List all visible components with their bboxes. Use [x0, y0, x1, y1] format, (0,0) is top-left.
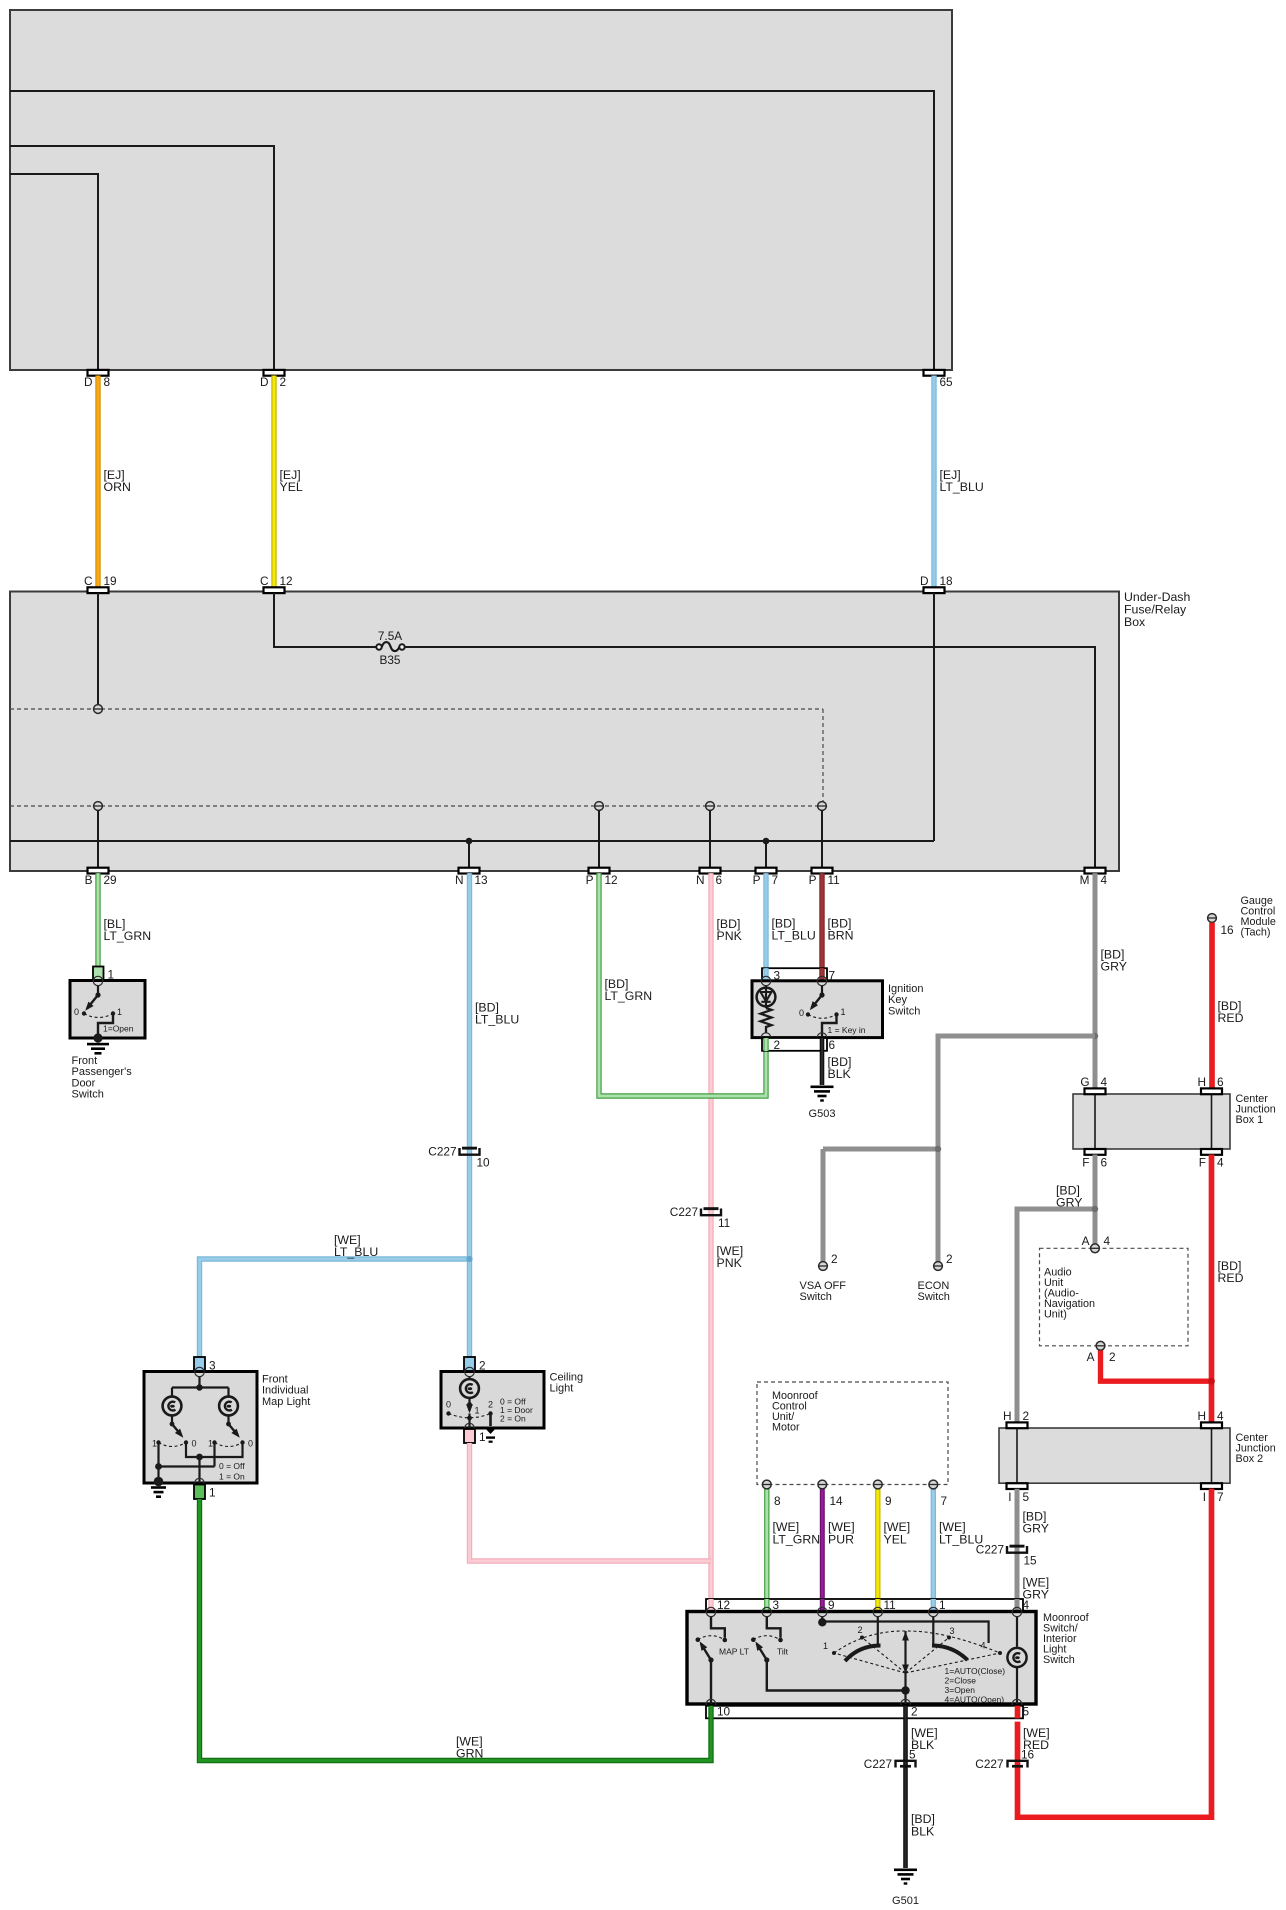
wire [WE] RED I7 to moonroof switch pin 5 [1018, 1489, 1212, 1818]
svg-text:12: 12 [280, 574, 293, 588]
gray junction dot [1092, 1033, 1098, 1039]
svg-text:H: H [1197, 1409, 1206, 1423]
ignition pin 2 circle [761, 1033, 770, 1042]
connector H6 [1197, 1075, 1224, 1094]
map light lamp left [163, 1397, 182, 1416]
svg-text:GRN: GRN [456, 1747, 483, 1761]
connector P11 [809, 868, 840, 887]
svg-text:1: 1 [823, 1641, 828, 1651]
ceiling light legend [500, 1397, 533, 1424]
svg-text:4: 4 [1101, 873, 1108, 887]
ceiling light lamp [460, 1376, 479, 1398]
fuse B35 7.5A [376, 629, 404, 667]
moonroof switch pin circles bottom [706, 1699, 1021, 1708]
door switch dashed travel arc [84, 1014, 113, 1018]
svg-text:F: F [1082, 1156, 1089, 1170]
gray junction dot 3 [1092, 1206, 1098, 1212]
map light pin 1 circle [195, 1478, 204, 1487]
gauge control module label [1241, 895, 1276, 939]
svg-text:H: H [1003, 1409, 1012, 1423]
map light 0-contacts bus [186, 1443, 243, 1484]
svg-text:N: N [455, 873, 464, 887]
svg-text:Switch: Switch [918, 1291, 950, 1303]
ceiling light pin 2 circle [465, 1367, 474, 1376]
wire: C19 to relay pin [97, 593, 99, 705]
svg-text:2: 2 [488, 1400, 493, 1410]
svg-text:16: 16 [1221, 923, 1235, 937]
moonroof switch top pin labels [717, 1598, 1030, 1612]
svg-text:Box: Box [1124, 615, 1146, 629]
moonroof rotary wiper [902, 1631, 909, 1691]
svg-text:Front: Front [72, 1055, 98, 1067]
svg-text:C: C [260, 574, 269, 588]
ignition pin labels 2 6 [774, 1038, 836, 1052]
moonroof rotary pin 1 stub [932, 1616, 934, 1645]
moonroof switch bottom pin strip [706, 1706, 1023, 1719]
svg-text:ORN: ORN [104, 480, 131, 494]
svg-text:Box 1: Box 1 [1236, 1114, 1264, 1126]
red junction dot [1208, 1378, 1215, 1385]
svg-text:4: 4 [1101, 1075, 1108, 1089]
connector B29 [85, 868, 117, 887]
wire [WE] YEL motor pin 9 to switch pin 11 [878, 1489, 910, 1608]
wire PNK ceiling light to moonroof switch [470, 1443, 712, 1561]
svg-text:1 = Key in: 1 = Key in [828, 1025, 866, 1035]
audio unit pin A4 [1082, 1234, 1111, 1253]
svg-text:5: 5 [1023, 1490, 1030, 1504]
svg-text:6: 6 [1217, 1075, 1224, 1089]
door switch contact 0 [74, 1007, 86, 1017]
ceiling light label [550, 1371, 584, 1394]
svg-text:LT_BLU: LT_BLU [772, 929, 816, 943]
svg-text:MAP LT: MAP LT [719, 1647, 749, 1657]
connector C227 pin 11 [670, 1205, 730, 1230]
relay pin circle P12 [595, 802, 604, 868]
svg-text:7: 7 [1217, 1490, 1224, 1504]
svg-text:5: 5 [909, 1748, 916, 1762]
svg-text:Passenger's: Passenger's [72, 1066, 133, 1078]
moonroof rotary feed [818, 1616, 989, 1643]
moonroof motor pin 7 [929, 1480, 947, 1508]
svg-text:11: 11 [718, 1216, 730, 1230]
wire [BD]/[WE] PNK N6 to moonroof switch [711, 873, 743, 1608]
CJB1 internal links [1095, 1094, 1212, 1149]
ceiling light output [467, 1414, 472, 1429]
ignition pin 7 circle [817, 976, 826, 985]
svg-text:A: A [1082, 1234, 1090, 1248]
wire [EJ] ORN D8 to C19 [98, 376, 131, 588]
svg-text:14: 14 [830, 1494, 844, 1508]
connector C227 pin 16 [975, 1748, 1034, 1771]
svg-text:4: 4 [1217, 1156, 1224, 1170]
svg-text:BLK: BLK [828, 1067, 852, 1081]
svg-text:9: 9 [828, 1598, 835, 1612]
svg-text:1: 1 [479, 1430, 486, 1444]
wire [BL] LT_GRN B29 to door switch [98, 873, 151, 966]
ignition pin 2 wire stub [763, 1038, 768, 1051]
svg-text:Ignition: Ignition [888, 983, 923, 995]
map light legend [219, 1461, 245, 1482]
map light pin 3 circle [195, 1367, 204, 1376]
svg-text:2: 2 [1109, 1350, 1116, 1364]
moonroof motor pin 8 [762, 1480, 781, 1508]
svg-text:1: 1 [939, 1598, 946, 1612]
svg-text:15: 15 [1024, 1554, 1038, 1568]
svg-text:G503: G503 [809, 1108, 836, 1120]
svg-text:P: P [753, 873, 761, 887]
wire [BD] RED gauge to H6 [1212, 923, 1244, 1089]
wire: dot to N13 [468, 841, 470, 868]
svg-text:LT_BLU: LT_BLU [940, 480, 984, 494]
svg-text:1: 1 [117, 1007, 122, 1017]
svg-text:1: 1 [475, 1406, 480, 1416]
svg-text:Map Light: Map Light [262, 1396, 310, 1408]
svg-text:C227: C227 [975, 1757, 1003, 1771]
ignition pin 3 wire stub [763, 968, 768, 981]
svg-text:1: 1 [209, 1486, 216, 1500]
connector H2 [1003, 1409, 1029, 1428]
center junction box 2 [999, 1428, 1276, 1483]
gray junction dot 2 [935, 1146, 941, 1152]
connector C227 pin 10 [428, 1145, 490, 1170]
moonroof motor pin 14 [818, 1480, 843, 1508]
MAP LT switch [696, 1616, 749, 1704]
connector C227 pin 15 [976, 1543, 1037, 1568]
svg-text:5: 5 [1023, 1705, 1030, 1719]
wire: dot to P7 [765, 841, 767, 868]
svg-text:BLK: BLK [911, 1825, 935, 1839]
svg-text:4: 4 [1217, 1409, 1224, 1423]
svg-text:9: 9 [885, 1494, 892, 1508]
interior light lamp [1007, 1616, 1026, 1704]
ground G503 [809, 1086, 836, 1121]
ceiling light pin 1 circle [465, 1423, 474, 1432]
svg-text:Tilt: Tilt [777, 1647, 789, 1657]
connector H4 [1197, 1409, 1224, 1428]
svg-text:Front: Front [262, 1373, 288, 1385]
map light ground [151, 1477, 166, 1498]
svg-text:4=AUTO(Open): 4=AUTO(Open) [945, 1694, 1005, 1704]
svg-text:LT_GRN: LT_GRN [104, 929, 152, 943]
svg-text:Box 2: Box 2 [1236, 1453, 1264, 1465]
moonroof switch bottom pin labels [717, 1705, 1030, 1719]
svg-text:Key: Key [888, 994, 907, 1006]
svg-text:LT_BLU: LT_BLU [475, 1013, 519, 1027]
svg-text:PUR: PUR [828, 1533, 854, 1547]
svg-text:Switch: Switch [888, 1005, 920, 1017]
moonroof motor pin 9 [873, 1480, 891, 1508]
wire: D18 into box [933, 593, 935, 841]
center junction box 1 [1073, 1093, 1276, 1149]
door switch output elbow [98, 1014, 134, 1039]
svg-text:D: D [84, 375, 93, 389]
map light pin 3 [194, 1357, 216, 1373]
connector N6 [696, 868, 723, 887]
svg-text:Light: Light [550, 1383, 574, 1395]
svg-text:0: 0 [192, 1439, 197, 1449]
wire [BD] BLK ignition pin 6 to G503 [822, 1051, 852, 1085]
svg-text:4: 4 [1104, 1234, 1111, 1248]
ignition pin 6 circle [817, 1033, 826, 1042]
junction dot N13 [466, 838, 473, 845]
svg-text:1=Open: 1=Open [103, 1024, 134, 1034]
svg-text:D: D [260, 375, 269, 389]
power distribution box (top) [10, 10, 952, 370]
connector D2 [260, 370, 286, 389]
door switch common stub [95, 985, 100, 997]
ignition pin 7 wire stub [819, 968, 824, 981]
audio unit dashed box [1040, 1248, 1189, 1346]
ceiling light pin 1 [464, 1429, 486, 1444]
svg-text:2=Close: 2=Close [945, 1675, 977, 1685]
connector G4 [1080, 1075, 1107, 1094]
svg-text:8: 8 [104, 375, 111, 389]
relay pin circle B29 [94, 802, 103, 868]
wire: bus to connector D8 [10, 174, 98, 370]
front passenger door switch box [70, 981, 145, 1039]
wire: internal bus to D18 [10, 840, 934, 842]
ignition resistor [761, 1008, 772, 1034]
wire RED A2 to junction [1101, 1351, 1212, 1382]
svg-text:0 = Off: 0 = Off [219, 1461, 245, 1471]
svg-text:11: 11 [828, 873, 840, 887]
connector C12 [260, 574, 293, 593]
moonroof rotary contact labels [823, 1625, 986, 1651]
relay pin circle P11 [818, 802, 827, 868]
wire: bus to connector D2 [10, 146, 274, 370]
connector F4 [1199, 1149, 1224, 1170]
svg-text:3: 3 [773, 1598, 780, 1612]
ceiling light box [441, 1372, 544, 1429]
svg-text:Door: Door [72, 1077, 96, 1089]
wire [WE] LT_GRN motor pin 8 to switch pin 3 [767, 1489, 820, 1608]
map light 1-contacts bus [155, 1443, 214, 1482]
svg-text:B: B [85, 873, 93, 887]
junction dot blue [466, 1256, 472, 1262]
map light pin 1 [194, 1485, 216, 1500]
junction dot P7 [763, 838, 770, 845]
wire [BD] LT_BLU P7 to ignition pin 3 [766, 873, 816, 981]
svg-text:VSA OFF: VSA OFF [800, 1280, 847, 1292]
svg-text:13: 13 [475, 873, 489, 887]
svg-text:YEL: YEL [280, 480, 303, 494]
svg-text:Individual: Individual [262, 1385, 308, 1397]
wire GRY I5 to moonroof switch pin 4 [1017, 1489, 1049, 1608]
svg-text:C227: C227 [428, 1145, 456, 1159]
svg-text:2: 2 [774, 1038, 781, 1052]
svg-text:C: C [84, 574, 93, 588]
svg-text:12: 12 [717, 1598, 730, 1612]
ECON switch pin 2 [934, 1252, 953, 1270]
svg-text:0: 0 [248, 1439, 253, 1449]
svg-text:Motor: Motor [772, 1422, 800, 1434]
ECON switch label [918, 1280, 950, 1303]
svg-text:RED: RED [1218, 1271, 1244, 1285]
relay pin circle C19 side [94, 705, 103, 714]
svg-text:11: 11 [884, 1598, 896, 1612]
svg-text:LT_BLU: LT_BLU [939, 1533, 983, 1547]
wire [EJ] YEL D2 to C12 [274, 376, 303, 588]
svg-text:Switch: Switch [800, 1291, 832, 1303]
moonroof rotary bridge contacts [845, 1646, 968, 1662]
svg-text:G501: G501 [892, 1895, 919, 1907]
connector C227 pin 5 [864, 1748, 916, 1771]
map light feed tee [172, 1376, 229, 1396]
under-dash fuse/relay box [10, 590, 1190, 871]
svg-text:1: 1 [841, 1007, 846, 1017]
svg-text:GRY: GRY [1101, 960, 1127, 974]
ignition contact 1 [834, 1007, 845, 1017]
ceiling light pin 2 [464, 1357, 486, 1373]
svg-text:RED: RED [1218, 1011, 1244, 1025]
ignition contact 0 [799, 1008, 810, 1018]
connector P12 [586, 868, 618, 887]
svg-text:19: 19 [104, 574, 117, 588]
svg-text:B35: B35 [380, 653, 401, 667]
door switch pin circle [93, 976, 102, 985]
svg-text:ECON: ECON [918, 1280, 950, 1292]
svg-text:2: 2 [280, 375, 287, 389]
svg-text:8: 8 [774, 1494, 781, 1508]
map light left switch [152, 1415, 197, 1448]
svg-text:10: 10 [717, 1705, 731, 1719]
ignition output elbow [822, 1015, 866, 1038]
svg-text:Switch: Switch [72, 1089, 104, 1101]
svg-text:LT_GRN: LT_GRN [605, 989, 653, 1003]
wire [EJ] LT_BLU 65 to D18 [934, 376, 984, 588]
svg-text:18: 18 [940, 574, 954, 588]
svg-text:7: 7 [772, 873, 779, 887]
svg-text:PNK: PNK [717, 1256, 743, 1270]
tilt output junction dot [901, 1686, 909, 1704]
wire [BD] LT_GRN P12 to ignition pin 2 [599, 873, 766, 1096]
wire [BD] GRY F6 to audio unit [1056, 1155, 1095, 1244]
svg-text:C227: C227 [864, 1757, 892, 1771]
svg-text:2: 2 [831, 1252, 838, 1266]
wire [WE] LT_BLU branch to map light [200, 1233, 470, 1358]
svg-text:(Tach): (Tach) [1241, 926, 1271, 938]
connector C19 [84, 574, 117, 593]
moonroof legend [945, 1666, 1006, 1705]
svg-text:I: I [1203, 1490, 1206, 1504]
ignition key switch box [752, 981, 883, 1038]
svg-text:LT_BLU: LT_BLU [334, 1245, 378, 1259]
wire [BD] GRY M4 to center junction box 1 [1095, 873, 1127, 1088]
moonroof switch box [687, 1612, 1036, 1705]
door switch case ground [87, 1033, 109, 1054]
VSA OFF switch pin 2 [819, 1252, 838, 1270]
connector D8 [84, 370, 111, 389]
moonroof switch label [1043, 1612, 1090, 1666]
door switch arm [83, 995, 98, 1013]
ignition pin 3 circle [761, 976, 770, 985]
wire [WE] PUR motor pin 14 to switch pin 9 [822, 1489, 854, 1608]
svg-text:LT_GRN: LT_GRN [773, 1533, 821, 1547]
svg-text:2: 2 [911, 1705, 918, 1719]
connector I5 [1007, 1483, 1030, 1504]
wire GRY branch to VSA/ECON [823, 1036, 1095, 1262]
ignition top pin strip [762, 968, 827, 981]
moonroof rotary pin 11 stub [877, 1616, 879, 1645]
map light right switch [208, 1415, 253, 1448]
connector N13 [455, 868, 488, 887]
wire: fuse to M4 [405, 647, 1095, 868]
ignition pin labels 3 7 [774, 968, 836, 982]
svg-text:C227: C227 [670, 1205, 698, 1219]
ceiling light ground [484, 1414, 498, 1443]
svg-text:G: G [1080, 1075, 1089, 1089]
moonroof switch top strip wire stubs [711, 1599, 1017, 1612]
svg-text:M: M [1080, 873, 1090, 887]
svg-text:I: I [1008, 1490, 1011, 1504]
svg-text:D: D [920, 574, 929, 588]
svg-text:F: F [1199, 1156, 1206, 1170]
connector I7 [1201, 1483, 1224, 1504]
svg-text:A: A [1087, 1350, 1095, 1364]
svg-text:0: 0 [74, 1007, 79, 1017]
svg-text:29: 29 [104, 873, 117, 887]
CJB2 internal links [1017, 1428, 1212, 1483]
ignition key light LED [757, 985, 776, 1008]
svg-text:H: H [1197, 1075, 1206, 1089]
svg-text:N: N [696, 873, 705, 887]
svg-text:YEL: YEL [884, 1533, 907, 1547]
wire: C12 to fuse B35 [274, 593, 376, 647]
wire [WE] GRN map light to moonroof switch pin 10 [200, 1499, 712, 1761]
ground G501 [892, 1869, 919, 1908]
svg-text:Ceiling: Ceiling [550, 1371, 584, 1383]
connector D18 [920, 574, 953, 593]
connector F6 [1082, 1149, 1107, 1170]
relay dashed outline [10, 709, 823, 806]
audio unit pin A2 [1087, 1341, 1116, 1364]
VSA OFF switch label [800, 1280, 847, 1303]
svg-text:7: 7 [941, 1494, 948, 1508]
svg-text:7.5A: 7.5A [378, 629, 402, 643]
connector 65 [924, 370, 954, 389]
moonroof switch pin circles top [706, 1607, 1021, 1616]
door switch label [72, 1055, 133, 1101]
map light lamp right [219, 1397, 238, 1416]
front individual map light box [144, 1372, 257, 1484]
connector P7 [753, 868, 778, 887]
wire GRY branch to H2 [1017, 1209, 1095, 1422]
svg-text:16: 16 [1021, 1748, 1035, 1762]
ceiling light switch [446, 1398, 493, 1418]
map light label [262, 1373, 310, 1407]
moonroof switch top pin strip [706, 1599, 1023, 1612]
ignition pin 6 wire stub [820, 1038, 825, 1051]
ignition key switch arm [807, 985, 824, 1012]
moonroof rotary dashed fan [834, 1631, 1000, 1673]
svg-text:P: P [809, 873, 817, 887]
wire: bus to connector 65 [10, 91, 934, 370]
svg-text:6: 6 [829, 1038, 836, 1052]
svg-text:4: 4 [1023, 1598, 1030, 1612]
svg-text:Switch: Switch [1043, 1654, 1075, 1666]
svg-text:GRY: GRY [1023, 1521, 1049, 1535]
door switch pin 1 [93, 967, 114, 982]
moonroof switch bottom strip wire stubs [711, 1706, 1018, 1719]
connector M4 [1080, 868, 1108, 887]
svg-text:1: 1 [208, 1439, 213, 1449]
svg-text:1=AUTO(Close): 1=AUTO(Close) [945, 1666, 1006, 1676]
svg-text:Unit): Unit) [1044, 1308, 1067, 1320]
Tilt switch [751, 1616, 906, 1690]
wire [BD] RED F4 to H4 [1212, 1155, 1244, 1422]
ignition label [888, 983, 923, 1017]
svg-text:10: 10 [477, 1156, 491, 1170]
